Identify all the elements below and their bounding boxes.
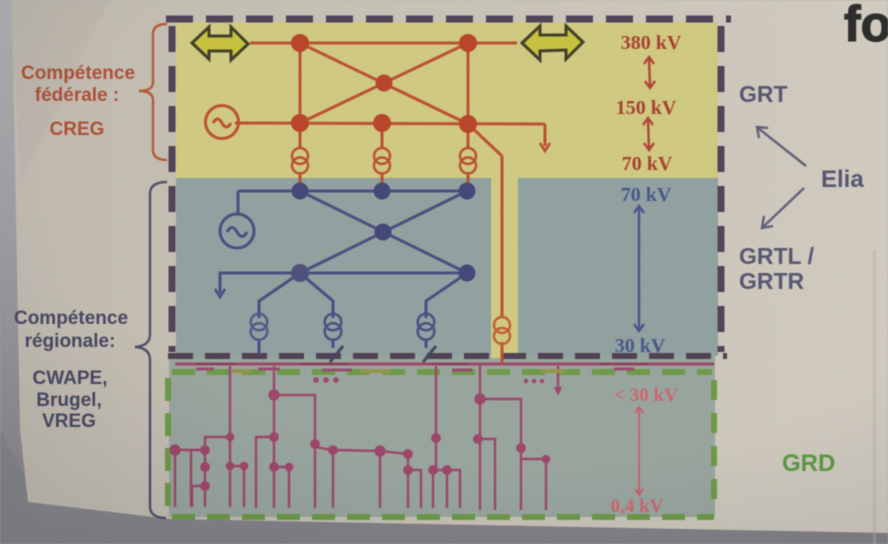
wire f4 right tail: [520, 448, 522, 510]
wire generator elbow: [237, 191, 240, 214]
wire B3 tail: [425, 339, 428, 348]
purple dashed border top: [166, 16, 731, 23]
arrow 70-30 blue: [634, 206, 644, 331]
wire f1 sub mid: [204, 450, 206, 507]
wire right xfmr to blue node: [467, 172, 470, 191]
node t11: [269, 462, 279, 472]
busbar dash accents: [196, 363, 648, 366]
wire bypass to busbar: [501, 342, 504, 364]
transformer T1: [292, 148, 308, 174]
node blue X-center: [375, 224, 392, 241]
switch S1: [330, 346, 343, 362]
arrowhead export stub: [540, 143, 550, 151]
node t7: [240, 462, 249, 471]
brace regional: [135, 182, 167, 518]
node 380kV right: [459, 34, 477, 52]
wire f3 left tail: [432, 470, 434, 508]
node t19: [442, 465, 452, 475]
magenta MV busbar: [175, 363, 714, 366]
wire feeder3 drop: [435, 366, 437, 470]
wire link drop b: [379, 451, 381, 508]
wire f1 branch left: [205, 437, 230, 450]
wire drop left to transformer: [299, 123, 302, 149]
green dashed border top: [172, 369, 712, 375]
node t23: [542, 455, 551, 464]
wire drop right to transformer: [467, 124, 470, 149]
arrowhead left feeder: [215, 289, 225, 297]
brace federal: [139, 24, 167, 160]
generator G1 (HV): [206, 106, 239, 139]
green dashed border bottom: [172, 514, 714, 520]
blue MV region: [176, 178, 718, 356]
transformer T3: [460, 148, 476, 174]
switch S2: [423, 346, 436, 362]
transformer B1: [251, 314, 268, 340]
wire f1 jog: [192, 486, 205, 507]
wire drop mid to transformer: [381, 123, 384, 149]
node t5: [200, 481, 210, 491]
wire feeder4 drop: [479, 366, 481, 399]
interconnection arrow left: [192, 27, 248, 60]
node t13: [328, 445, 338, 455]
purple dashed border left: [169, 26, 176, 352]
wire link drop a: [332, 450, 334, 508]
wire to xfmr B2: [300, 273, 333, 318]
table shadow bottom-left: [0, 430, 60, 544]
page edge shadow right: [873, 250, 876, 544]
arrow Elia-GRT: [757, 127, 806, 166]
wire feeder2 drop: [273, 366, 275, 437]
node t9: [269, 432, 279, 442]
wire f2 left spur: [256, 437, 274, 508]
node dots group A: [313, 377, 339, 383]
wire f4 branch b: [480, 439, 495, 510]
node 150kV right: [459, 115, 477, 133]
transformer B2: [325, 314, 342, 340]
green dashed border left: [165, 378, 171, 512]
node t17: [431, 433, 441, 443]
node 70kV mid: [374, 183, 391, 200]
node t3: [169, 444, 180, 455]
node t2: [200, 445, 210, 455]
paper grain: [0, 0, 1, 1]
interconnection arrow right: [522, 26, 583, 60]
node t14: [374, 445, 385, 456]
wire f3 jog right: [447, 470, 460, 508]
wire bypass vertical: [501, 156, 504, 318]
wire f4 branch right: [480, 399, 521, 448]
arrow 380-150: [644, 57, 655, 88]
wire f2 branch right: [274, 395, 315, 444]
wire 380kV top bus: [250, 42, 517, 45]
wire f3 pair: [433, 470, 447, 508]
node t12: [285, 463, 294, 472]
teal distribution region: [169, 356, 715, 517]
wire mid xfmr to blue node: [381, 172, 384, 191]
wire blue diagonal A: [300, 191, 467, 273]
green dashed border right: [711, 380, 717, 512]
transformer T2: [374, 148, 390, 174]
wire left feeder elbow: [220, 273, 300, 293]
wire to xfmr B3: [426, 273, 467, 318]
node t8: [268, 389, 279, 400]
wire bypass diagonal: [468, 124, 502, 156]
transformer T4 (bypass, orange): [494, 317, 510, 344]
node t20: [474, 393, 485, 404]
magenta dashes on green border: [196, 369, 634, 370]
vignette: [0, 0, 1, 1]
wire export stub: [544, 124, 547, 146]
node 70kV left: [292, 183, 309, 200]
wire to xfmr B1: [259, 273, 300, 318]
node t6: [226, 462, 235, 471]
wire feeder1 drop: [229, 366, 231, 437]
node t10: [310, 439, 320, 449]
node t18: [428, 465, 438, 475]
wire B1 tail: [258, 339, 261, 355]
wire f4 lower: [479, 399, 481, 510]
wire f1 branch right: [230, 466, 244, 507]
wire 70kV top bus: [238, 190, 468, 193]
yellow bypass strip: [491, 178, 518, 358]
page top-left corner shade: [12, 0, 110, 185]
node t1: [226, 433, 235, 442]
arrow Elia-GRTL: [762, 188, 804, 228]
purple dashed border bottom (30 kV boundary line): [168, 353, 727, 359]
node t15: [403, 449, 413, 459]
wire blue diagonal B: [300, 191, 467, 273]
yellow HV region: [176, 22, 718, 178]
node 30kV right: [459, 265, 476, 282]
wire B2 tail: [332, 339, 335, 348]
wire f2 lower: [273, 437, 275, 508]
wire f1 lower: [229, 437, 231, 507]
wire 150kV bus: [235, 123, 545, 124]
wire diagonal B: [300, 43, 468, 123]
wire 30kV bus: [300, 272, 467, 275]
arrow 150-70: [643, 118, 654, 150]
wire stub feeder5: [557, 366, 559, 392]
wire f1 sub left: [190, 450, 192, 507]
node 150kV left: [291, 114, 309, 132]
generator G2 (MV): [220, 214, 254, 248]
purple dashed border right: [718, 26, 725, 352]
wire link right: [380, 451, 408, 508]
wire f2 branch right2: [274, 467, 289, 508]
wire f4 jog right: [521, 459, 546, 510]
olive dash accents: [232, 369, 565, 373]
node dots group B: [524, 379, 544, 383]
node X-center: [376, 75, 393, 92]
wire vertical left 380kV: [299, 43, 302, 123]
wire left xfmr to blue node: [299, 172, 302, 191]
node t4: [200, 462, 210, 472]
node 30kV left: [291, 264, 309, 282]
node 150kV mid: [373, 114, 391, 132]
wire diagonal A: [300, 43, 468, 124]
node t22: [516, 443, 526, 453]
wire stub arrowhead: [555, 387, 561, 393]
wire vertical right 380kV: [467, 43, 470, 124]
node 380kV left: [291, 34, 309, 52]
transformer B3: [418, 314, 435, 340]
node t16: [403, 465, 413, 475]
arrow 30-0.4 pink: [635, 407, 643, 495]
node 70kV right: [459, 183, 476, 200]
wire cross link: [315, 447, 380, 451]
wire f1 branch left2: [175, 450, 205, 507]
wire link jog: [408, 470, 421, 508]
wire f2 right tail: [314, 444, 316, 508]
node t21: [473, 434, 483, 444]
